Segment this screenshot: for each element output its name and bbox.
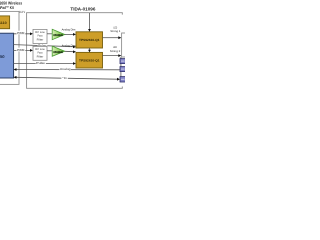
arrow into RC filter 2 <box>30 49 33 52</box>
wire U2 output to TPS2 (Analog Dim) <box>65 50 74 52</box>
svg-text:OPA2343: OPA2343 <box>53 51 63 54</box>
svg-text:TPS92610-Q1: TPS92610-Q1 <box>79 38 100 42</box>
svg-text:Pulse: Pulse <box>36 61 45 65</box>
label LED String 2 <box>110 46 121 53</box>
arrow into TPS2 lower input <box>73 62 76 65</box>
label LED String 1 <box>110 26 121 33</box>
svg-text:Analog Dim: Analog Dim <box>62 29 76 32</box>
arrow into CC2650 (degC) <box>14 76 17 79</box>
wire PWM1: CC2650 to RC filter 1 <box>14 33 32 35</box>
wire Pulse2: CC2650 to TPS2 lower input <box>14 62 74 64</box>
op-amp U2 <box>52 46 65 56</box>
arrow into CC2650 (Analog) <box>14 68 17 71</box>
svg-text:°C: °C <box>62 76 67 80</box>
label: CC2650 Wireless MCU LaunchPad Kit (clipped at left edge) <box>0 0 23 9</box>
svg-text:LED: LED <box>113 26 117 29</box>
arrow into TPS2 upper input <box>73 50 76 53</box>
sensor module C temp sensor (purple, clipped) <box>120 77 127 82</box>
MCU CC2650 (blue box in kit, clipped) <box>0 33 14 78</box>
RC low pass filter 1 <box>33 29 47 43</box>
LaunchPad kit outline box (left, clipped) <box>0 11 19 84</box>
svg-text:Analog: Analog <box>60 67 71 71</box>
wire supply TPS1 to TPS2 <box>89 48 91 50</box>
wire chain to sensor modules <box>120 57 122 59</box>
arrow into RC filter 1 <box>30 32 33 35</box>
svg-text:650: 650 <box>0 54 5 59</box>
wire RC1 to op-amp U1 <box>47 33 52 35</box>
arrow into TPS1 lower input <box>73 46 76 49</box>
background <box>0 0 125 90</box>
LED driver TPS92610-Q1 #2 <box>76 52 103 68</box>
arrow into TPS1 upper input <box>73 33 76 36</box>
arrow into LED string box 2 <box>118 54 121 57</box>
svg-text:OPA2343: OPA2343 <box>53 34 63 37</box>
wire Analog: light sensor module back to CC2650 <box>16 69 120 71</box>
svg-text:S110: S110 <box>0 21 7 25</box>
wire supply into TPS1 top <box>89 13 91 29</box>
RC low pass filter 2 <box>33 46 47 60</box>
svg-text:Pass: Pass <box>38 52 44 55</box>
svg-text:Pass: Pass <box>38 35 44 38</box>
debug probe XDS110 (orange box in kit, clipped) <box>0 16 10 29</box>
svg-text:PWM: PWM <box>17 48 25 52</box>
sensor module A (purple, clipped) <box>120 59 127 64</box>
svg-text:Analog Dim: Analog Dim <box>62 44 76 47</box>
op-amp U1 <box>52 29 65 39</box>
wire degC: temp sensor module back to CC2650 <box>16 77 117 79</box>
svg-text:String 2: String 2 <box>110 50 121 53</box>
arrow into temp sensor module <box>117 78 120 81</box>
main board outline (TIDA-01096 board) <box>27 13 123 89</box>
arrow into TPS1 top <box>88 29 91 32</box>
svg-text:hPad™ Kit: hPad™ Kit <box>0 5 14 10</box>
wire U1 output to TPS1 (Analog Dim) <box>65 33 74 35</box>
svg-text:TIDA-01096: TIDA-01096 <box>70 6 96 11</box>
arrow into TPS2 top <box>88 50 91 53</box>
svg-text:LED: LED <box>113 46 117 49</box>
wire RC2 to op-amp U2 <box>47 50 52 52</box>
wire PWM2: CC2650 to RC filter 2 <box>14 49 32 51</box>
svg-text:3.3 V: 3.3 V <box>19 10 26 14</box>
svg-text:Filter: Filter <box>37 55 44 58</box>
wire LED String 2 output <box>103 55 119 57</box>
arrow into LED string box 1 <box>118 36 121 39</box>
sensor module B light sensor (purple, clipped) <box>120 67 127 72</box>
svg-text:TPS92610-Q1: TPS92610-Q1 <box>79 59 100 63</box>
LED driver TPS92610-Q1 #1 <box>76 32 103 48</box>
svg-text:Filter: Filter <box>37 38 44 41</box>
LED string box (right edge, clipped) <box>122 33 130 57</box>
wire LED String 1 output <box>103 37 119 39</box>
svg-text:PWM: PWM <box>17 31 25 35</box>
wire Pulse1: CC2650 to TPS1 lower input <box>14 45 74 47</box>
svg-text:String 1: String 1 <box>110 30 121 33</box>
